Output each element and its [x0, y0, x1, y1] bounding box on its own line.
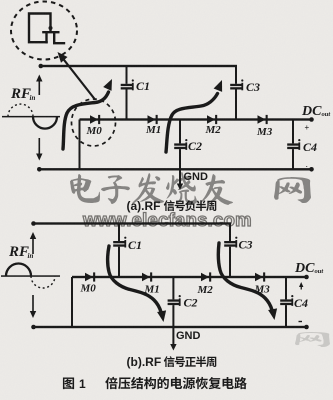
node C3 branch (a): [235, 66, 237, 120]
node C2 branch (a): [179, 120, 181, 170]
capacitor C2 (b): [168, 299, 180, 305]
label C1 (b): [124, 237, 142, 252]
node DC_out (a): [301, 104, 330, 172]
arrow RF polarity down (b): [30, 295, 36, 318]
wire bottom rail (b): [31, 325, 306, 330]
arrow RF polarity up (a): [36, 75, 42, 96]
arrow RF polarity down (a): [36, 138, 42, 161]
node C2 branch (b): [172, 277, 174, 327]
node DC_out (b): [294, 261, 323, 329]
label C4 (b): [291, 295, 308, 310]
label C4: [298, 139, 317, 154]
wire bottom rail (a): [37, 167, 312, 172]
watermark fragment: [295, 332, 330, 347]
diode M3: [258, 115, 268, 124]
diode M1 (b): [142, 272, 152, 281]
node C3 branch (b): [229, 224, 231, 278]
arrow RF polarity up (b): [30, 232, 36, 254]
wire chain-to-bottom drop (b): [71, 277, 73, 327]
node C4 branch (b): [285, 277, 287, 327]
current path arrow 1 (b): [108, 246, 166, 322]
wire diode chain rail (b): [72, 276, 307, 278]
caption (b) RF signal positive half cycle: [127, 355, 217, 369]
diode M2: [207, 115, 217, 124]
current path arrow 2 (a): [166, 80, 222, 152]
arrow ellipse to zoom circle: [58, 52, 96, 100]
node C1 branch (a): [126, 66, 128, 120]
label C2: [185, 139, 202, 153]
node C4 branch (a): [292, 120, 294, 170]
wire diode chain rail (a): [80, 118, 312, 120]
caption (a) RF signal negative half cycle: [127, 199, 217, 213]
waveform RF sine (a): [2, 104, 60, 128]
label C3: [241, 79, 260, 94]
wire chain-to-bottom drop (a): [79, 120, 81, 170]
source RF_in (a) label: [10, 86, 35, 102]
wire top rail (b): [31, 221, 231, 226]
source RF_in (b) label: [8, 244, 33, 260]
ground GND (a): [177, 169, 208, 190]
diode M1: [148, 115, 158, 124]
label C1: [132, 79, 150, 93]
capacitor C4 (b): [280, 299, 292, 305]
capacitor C3 (b): [224, 241, 236, 247]
capacitor C1: [121, 84, 133, 90]
dashed zoom circle: [11, 2, 77, 60]
diode M3 (b): [255, 272, 265, 281]
label C2 (b): [179, 295, 198, 310]
diode M2 (b): [201, 272, 211, 281]
current path arrow 2 (b): [218, 243, 277, 320]
label C3 (b): [235, 237, 252, 252]
capacitor C2: [174, 143, 186, 149]
watermark 电子发烧友网: [70, 172, 311, 205]
dashed ellipse around M0: [72, 99, 116, 146]
capacitor C1 (b): [113, 241, 125, 247]
diode M0 (b): [85, 272, 95, 281]
waveform RF sine (b): [1, 264, 60, 289]
capacitor C4: [287, 143, 299, 149]
current path arrow 1 (a): [63, 79, 112, 149]
wire top rail (a): [39, 64, 238, 69]
node C1 branch (b): [118, 224, 120, 278]
diode M0: [90, 115, 100, 124]
ground GND (b): [170, 327, 200, 351]
figure caption 图1: [63, 377, 247, 391]
capacitor C3: [230, 84, 242, 90]
MOSFET detail symbol (diode-connected): [29, 14, 64, 44]
